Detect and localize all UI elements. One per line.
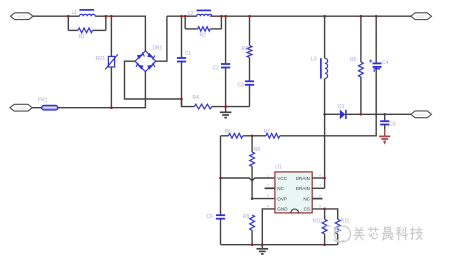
inductor L3 <box>311 16 328 114</box>
node C5 top <box>383 113 386 116</box>
svg-text:R6: R6 <box>225 129 232 135</box>
op-amp U1 <box>275 165 312 213</box>
port AC/L <box>11 13 34 20</box>
svg-text:AC/N: AC/N <box>16 105 27 110</box>
inductor L2 <box>188 10 212 16</box>
svg-text:RV1: RV1 <box>96 56 106 62</box>
node L1 right <box>104 15 107 18</box>
svg-text:C1: C1 <box>185 51 192 57</box>
svg-text:L3: L3 <box>311 57 317 63</box>
svg-text:DB1: DB1 <box>153 45 163 51</box>
node ground junction C2 <box>224 105 227 108</box>
node R9 bottom <box>251 243 254 246</box>
resistor R8 <box>250 136 261 199</box>
node CS junction <box>323 208 326 211</box>
svg-text:DRAIN: DRAIN <box>296 186 310 191</box>
wire NC left stub <box>265 187 275 189</box>
node DRAIN1 <box>323 177 326 180</box>
node C2 top <box>224 15 227 18</box>
resistor R4 <box>193 95 212 109</box>
resistor R7 <box>264 129 280 138</box>
svg-text:R1: R1 <box>79 34 86 40</box>
svg-text:7: 7 <box>319 184 321 188</box>
watermark text 美芯晟科技 <box>354 227 422 240</box>
node R3 top <box>248 15 251 18</box>
svg-text:R10: R10 <box>313 218 322 224</box>
wire top rail L2 to LED+ <box>221 15 411 17</box>
resistor R2 <box>198 27 211 39</box>
wire top rail to L2 <box>167 15 185 17</box>
wire VCC with hop <box>221 178 275 181</box>
svg-text:L2: L2 <box>188 11 194 17</box>
inductor L1 <box>72 10 96 16</box>
resistor R9 <box>243 214 255 245</box>
varistor RV1 <box>96 54 118 69</box>
resistor R5 <box>350 16 363 114</box>
resistor R3 <box>242 16 252 57</box>
svg-text:C5: C5 <box>389 122 396 128</box>
resistor R10 <box>313 209 328 245</box>
wire D1 cathode to LED- <box>346 113 411 115</box>
svg-text:DRAIN: DRAIN <box>296 176 310 181</box>
capacitor C2 <box>213 16 231 106</box>
node R6 R7 R8 <box>251 134 254 137</box>
svg-text:R9: R9 <box>243 214 250 220</box>
node L1 left <box>67 15 70 18</box>
wire R2 path <box>185 28 221 30</box>
resistor R1 <box>78 28 93 40</box>
node R10 bottom <box>323 243 326 246</box>
svg-text:1: 1 <box>267 173 269 177</box>
svg-text:4: 4 <box>267 204 269 208</box>
node L3 top <box>323 15 326 18</box>
diode bridge DB1 <box>135 45 162 71</box>
wire L2 box risers <box>185 16 221 29</box>
svg-text:R4: R4 <box>193 95 200 101</box>
diode D1 <box>338 104 346 119</box>
port LED- <box>411 111 432 118</box>
wire RV1 column <box>110 16 112 108</box>
node C4 bottom <box>375 113 378 116</box>
svg-text:GND: GND <box>277 207 288 212</box>
node GND rail <box>261 243 264 246</box>
svg-text:L1: L1 <box>72 10 78 16</box>
capacitor C5 <box>380 114 396 129</box>
node L2 right <box>220 15 223 18</box>
fuse FR1 <box>38 97 58 110</box>
svg-text:R3: R3 <box>242 46 249 52</box>
port AC/N <box>10 104 32 111</box>
svg-text:OVP: OVP <box>277 196 287 201</box>
node VCC junction <box>219 177 222 180</box>
svg-text:LED+: LED+ <box>416 14 428 19</box>
wire CS <box>312 209 338 219</box>
wire bottom rail <box>221 244 338 246</box>
svg-text:NC: NC <box>303 196 310 201</box>
wire AC/N to FR1 <box>32 107 42 109</box>
wire DRAIN2 stub <box>312 187 324 189</box>
capacitor C4 <box>369 16 388 114</box>
svg-text:C2: C2 <box>213 66 220 72</box>
wire R1 path <box>68 29 106 31</box>
svg-text:R2: R2 <box>200 33 207 39</box>
svg-text:6: 6 <box>319 194 321 198</box>
pin numbers right <box>319 173 321 208</box>
wire C1 jog to R4 <box>182 99 195 107</box>
wire DRAIN1 stub <box>312 177 324 179</box>
wire L2 leads <box>185 15 221 17</box>
wire R4 to C3 column <box>212 106 250 108</box>
wire R6 leads <box>221 135 253 137</box>
node C4 top <box>375 15 378 18</box>
svg-text:C4: C4 <box>382 60 389 66</box>
svg-text:FR1: FR1 <box>38 97 48 103</box>
wire port AC/L to L1 <box>33 15 68 17</box>
ground power GND mid <box>220 107 232 118</box>
node R5 top <box>360 15 363 18</box>
wire bridge left to C1 bottom <box>125 61 182 99</box>
wire FR1 to bridge bottom <box>58 71 145 108</box>
svg-text:U1: U1 <box>275 165 282 171</box>
wire DRAIN column <box>324 114 326 188</box>
wire feedback run C4 to R7 <box>280 114 376 136</box>
capacitor C1 <box>177 16 192 106</box>
svg-text:AC/L: AC/L <box>17 14 27 19</box>
wire bridge right riser <box>156 16 167 61</box>
svg-text:LED-: LED- <box>416 112 427 117</box>
wire C6 column <box>220 136 222 245</box>
wire D1 anode lead <box>325 113 340 115</box>
svg-text:D1: D1 <box>338 104 345 110</box>
node OVP junction <box>251 197 254 200</box>
svg-text:NC: NC <box>277 186 284 191</box>
pin numbers left <box>267 173 269 208</box>
svg-text:R8: R8 <box>254 147 261 153</box>
capacitor C6 <box>207 214 226 220</box>
svg-text:5: 5 <box>319 204 321 208</box>
node RV1 top <box>110 15 113 18</box>
wire L1 leads <box>68 15 106 17</box>
node C1 top <box>180 15 183 18</box>
svg-text:C6: C6 <box>207 214 214 220</box>
wire R7 left lead <box>252 135 266 137</box>
node L3 bottom D1 anode <box>323 113 326 116</box>
svg-text:3: 3 <box>267 194 269 198</box>
resistor R11 <box>335 218 349 244</box>
wire L1 box risers <box>68 16 106 30</box>
svg-text:R5: R5 <box>350 57 357 63</box>
wire NC right stub <box>312 198 322 200</box>
port LED+ <box>411 13 432 20</box>
wire OVP <box>252 198 275 200</box>
ground earth red <box>379 129 390 144</box>
node RV1 bottom <box>110 106 113 109</box>
node R5 bottom <box>360 113 363 116</box>
ground power GND bottom <box>257 245 269 254</box>
capacitor C3 <box>238 57 255 106</box>
svg-text:C3: C3 <box>238 82 245 88</box>
node L2 left <box>184 15 187 18</box>
svg-text:R11: R11 <box>341 218 350 224</box>
node C1 bottom <box>180 98 183 101</box>
resistor R6 <box>225 129 243 138</box>
wire GND pin to rail <box>262 209 275 245</box>
svg-text:2: 2 <box>267 184 269 188</box>
watermark logo <box>325 226 351 242</box>
svg-text:CS: CS <box>304 207 310 212</box>
svg-text:R7: R7 <box>264 129 271 135</box>
wire L1 to bridge top <box>106 16 146 51</box>
svg-text:VCC: VCC <box>277 176 287 181</box>
svg-text:8: 8 <box>319 173 321 177</box>
